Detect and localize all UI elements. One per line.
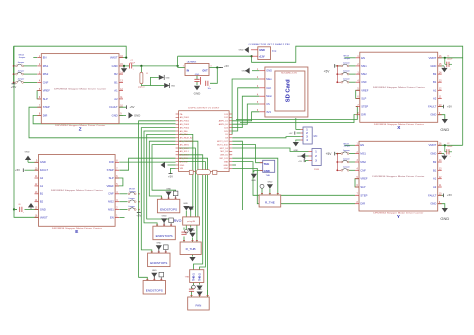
endstop 4 pin numbers xyxy=(146,278,148,280)
svg-text:DRV8834 Stepper Motor Driver C: DRV8834 Stepper Motor Driver Carrier xyxy=(373,86,425,89)
svg-text:DSPIC DEVKIT V1 DGKT: DSPIC DEVKIT V1 DGKT xyxy=(188,107,220,109)
svg-text:CNF: CNF xyxy=(108,192,114,196)
Y jumper wires xyxy=(349,153,355,155)
wire: Y EN stub wire xyxy=(345,144,355,146)
svg-text:AN_PGD2: AN_PGD2 xyxy=(180,120,190,123)
wire: R_THE sense from MCU xyxy=(232,158,278,195)
PGM connector box xyxy=(312,149,321,166)
svg-text:+5V: +5V xyxy=(324,69,331,73)
FAN connector box xyxy=(188,297,210,310)
wire: I2C pin4 gnd stub xyxy=(296,140,301,142)
wire: THE connector top pin from MCU xyxy=(232,145,263,163)
wire: X VREF-SLP loop xyxy=(356,90,360,98)
svg-text:A2: A2 xyxy=(433,96,437,100)
svg-text:AN_SCL0: AN_SCL0 xyxy=(180,154,190,157)
svg-text:DIR: DIR xyxy=(109,160,114,164)
svg-text:LIN8_D0: LIN8_D0 xyxy=(220,155,229,157)
endstop gnd and switch stubs xyxy=(168,195,170,200)
svg-text:GND: GND xyxy=(297,156,302,158)
svg-text:MS2: MS2 xyxy=(361,72,367,76)
svg-text:A2: A2 xyxy=(114,97,118,101)
svg-text:+5V: +5V xyxy=(11,85,16,89)
E left pins xyxy=(35,161,39,163)
svg-text:GND: GND xyxy=(242,70,247,72)
svg-text:MOT1_SCK: MOT1_SCK xyxy=(217,144,228,146)
MCU bottom pads xyxy=(189,170,193,174)
wire: Y +5V to jumpers xyxy=(336,153,342,155)
Z jumper pad connections xyxy=(24,65,38,67)
svg-text:polyfuse: polyfuse xyxy=(138,87,145,89)
svg-text:GND: GND xyxy=(40,208,46,212)
svg-text:MIC_D6: MIC_D6 xyxy=(221,151,229,153)
wire: +12V top-left rail from Z VMOT loop xyxy=(14,46,126,209)
svg-text:C2: C2 xyxy=(447,143,449,145)
PGM gnd arrow pin2 xyxy=(301,153,305,159)
wire: FAN left pin cap link xyxy=(191,292,193,298)
wire: polyfuse J1 branch down xyxy=(140,66,142,73)
wire: PGM pin1 from MCU xyxy=(232,148,308,152)
wire: MCU internal bus to servo 2 xyxy=(179,148,196,217)
endstop 3 gnd arrow xyxy=(156,245,162,249)
svg-text:Jumper: Jumper xyxy=(128,206,135,208)
I2C connector pins xyxy=(301,129,303,131)
wire: Z VREF-SLP loop xyxy=(37,91,41,99)
Z left pins xyxy=(37,57,41,59)
wire: X STEP from MCU xyxy=(236,106,357,119)
svg-text:100uF: 100uF xyxy=(447,146,453,148)
svg-text:IN: IN xyxy=(187,69,190,72)
svg-text:A1: A1 xyxy=(40,184,44,188)
svg-text:DRV8834 Stepper Motor Driver C: DRV8834 Stepper Motor Driver Carrier xyxy=(372,175,424,178)
svg-text:GND: GND xyxy=(430,64,436,68)
wire: MCU gnd pin row15 xyxy=(168,164,176,166)
svg-text:GND: GND xyxy=(264,169,270,173)
endstop 2 gnd arrow xyxy=(161,218,167,222)
wire: FAN right pin from +5V bus xyxy=(207,290,209,297)
svg-text:STEP: STEP xyxy=(43,105,50,109)
wire: MCU left endstop bus 2 xyxy=(141,128,175,254)
svg-text:B1: B1 xyxy=(433,168,437,172)
wire: X GND15 stub to gnd xyxy=(438,65,444,67)
svg-text:GND: GND xyxy=(430,113,436,117)
R_THE pin numbers xyxy=(261,193,263,195)
svg-text:GND: GND xyxy=(293,150,298,152)
svg-text:(kng): (kng) xyxy=(272,50,277,52)
wire: MCU left endstop bus 4 xyxy=(149,141,175,199)
wire: Y VREF-SLP loop xyxy=(355,179,359,187)
X +5V supply at jumpers xyxy=(334,64,336,68)
svg-text:CNF: CNF xyxy=(361,80,367,84)
PGM connector pins xyxy=(309,151,313,153)
endstop 1 gnd arrow xyxy=(166,192,172,196)
svg-text:EN: EN xyxy=(110,215,114,219)
svg-text:VREF: VREF xyxy=(107,184,115,188)
gnd arrow at E bulk cap xyxy=(28,203,34,207)
svg-text:Jumper: Jumper xyxy=(344,146,351,148)
svg-text:SLP: SLP xyxy=(361,96,366,100)
svg-text:DRV8834 Stepper Motor Driver C: DRV8834 Stepper Motor Driver Carrier xyxy=(54,87,106,90)
svg-text:+5V: +5V xyxy=(447,193,452,197)
wire: MCU right stub row15 and k8 drop xyxy=(232,164,236,166)
svg-text:GND: GND xyxy=(251,180,256,182)
junction at regulator tap xyxy=(177,65,179,67)
svg-text:pw brg AM: pw brg AM xyxy=(187,220,196,223)
svg-text:THE: THE xyxy=(264,162,270,166)
JST power connector box xyxy=(258,47,271,60)
Y left pins xyxy=(355,144,359,146)
wire: SD card 3V3 xyxy=(232,112,259,121)
wire: I2C pin1 from riser xyxy=(295,118,297,130)
svg-text:B2: B2 xyxy=(433,72,437,76)
wire: regulator GND pin down xyxy=(196,76,198,80)
wire: Z GND pin to bulk cap C7 xyxy=(119,65,129,67)
svg-text:VIN: VIN xyxy=(180,168,184,170)
svg-text:+5V: +5V xyxy=(224,64,229,68)
MCU +5V supply below left pins xyxy=(169,173,173,175)
wire: MCU left endstop bus 5 xyxy=(152,145,176,193)
svg-text:A1: A1 xyxy=(433,88,437,92)
cap C7 at Z GND pin xyxy=(129,63,131,68)
wire: +5V branch down to cap C5 xyxy=(210,68,217,84)
endstop connector 3 box xyxy=(148,253,170,267)
svg-text:Mosi: Mosi xyxy=(266,94,272,98)
SERVO header box xyxy=(183,217,200,225)
svg-text:MOT2_OUT: MOT2_OUT xyxy=(217,141,229,143)
endstop 2 pin numbers xyxy=(156,224,158,226)
svg-text:SLP: SLP xyxy=(109,176,114,180)
svg-text:MS2: MS2 xyxy=(360,160,366,164)
svg-text:3V3: 3V3 xyxy=(266,110,271,114)
svg-text:GND: GND xyxy=(440,216,449,221)
svg-text:SLP: SLP xyxy=(360,185,365,189)
E +5V supply at jumpers xyxy=(137,212,141,214)
svg-text:CONNECTOR JST 2 SHIM 2 PIN: CONNECTOR JST 2 SHIM 2 PIN xyxy=(249,44,291,46)
wire: THB bottom pins xyxy=(193,283,195,286)
svg-text:MS1: MS1 xyxy=(43,64,49,68)
svg-text:STEP: STEP xyxy=(360,193,367,197)
svg-text:CNF: CNF xyxy=(43,80,49,84)
wire: Z jumper +5V rail xyxy=(13,46,15,84)
junction at JST +12V pin xyxy=(251,55,253,57)
MCU gnd arrow row15 xyxy=(161,162,165,168)
Z FAULT wire and +5V supply xyxy=(119,106,126,108)
svg-text:Jumper: Jumper xyxy=(343,150,350,152)
svg-text:SLP: SLP xyxy=(43,97,48,101)
wire: bus down to THB connector 2 xyxy=(179,162,206,270)
svg-text:SD Card: SD Card xyxy=(286,79,292,102)
gnd arrow above R_THB middle pin xyxy=(189,233,195,237)
servo gnd arrows above xyxy=(183,206,189,210)
svg-text:AN_RA0: AN_RA0 xyxy=(180,133,189,136)
regulator +5V supply xyxy=(219,67,223,69)
FAN pin numbers xyxy=(191,295,193,297)
wire: MCU internal bus to servo 3 xyxy=(179,141,198,217)
svg-text:Jumper: Jumper xyxy=(129,191,136,193)
wire: JST +12V to right rail riser xyxy=(252,46,463,145)
svg-text:DIR: DIR xyxy=(360,202,365,206)
E jumpers xyxy=(128,193,130,195)
stepper driver Y (DRV8834 carrier) box xyxy=(359,141,438,211)
R_THE thermistor box xyxy=(259,195,281,207)
cap C1 at X VMOT xyxy=(446,62,448,67)
wire: X EN stub wire xyxy=(345,57,356,59)
svg-text:GND: GND xyxy=(162,216,167,218)
wire: Y FAULT to +5V xyxy=(438,194,444,196)
THE connector box xyxy=(263,160,275,172)
svg-text:uA78M05: uA78M05 xyxy=(187,61,197,64)
wire: E DIR to MCU xyxy=(119,161,175,163)
svg-text:MS1: MS1 xyxy=(108,208,114,212)
svg-text:Jumper: Jumper xyxy=(344,58,351,60)
wire: +12V feed to E driver cap and VMOT xyxy=(14,208,17,210)
cap C2 at Y VMOT xyxy=(446,149,448,154)
svg-text:+5V: +5V xyxy=(289,133,293,135)
svg-text:Jumper: Jumper xyxy=(18,79,25,81)
svg-text:GND: GND xyxy=(259,49,265,52)
svg-text:DIR: DIR xyxy=(361,113,366,117)
MCU left pins xyxy=(176,113,179,115)
svg-text:Jumper: Jumper xyxy=(18,70,25,72)
wire: E SLP-VREF loop xyxy=(115,178,123,186)
svg-text:C1: C1 xyxy=(447,55,449,57)
E FAULT +5V xyxy=(22,168,24,172)
endstop connector 2 box xyxy=(153,226,175,240)
svg-text:FAULT: FAULT xyxy=(40,168,49,172)
svg-text:GND: GND xyxy=(194,92,202,96)
MCU dev board U1 box xyxy=(179,111,230,172)
svg-text:SDCARD-3.3V: SDCARD-3.3V xyxy=(281,72,298,75)
junction +12V at E cap xyxy=(13,208,15,210)
diode D1 to gnd xyxy=(159,75,164,80)
svg-text:AN_RA1E_B2: AN_RA1E_B2 xyxy=(180,137,194,140)
svg-text:ENDSTOPS: ENDSTOPS xyxy=(160,207,177,211)
svg-text:PGM: PGM xyxy=(314,169,319,171)
svg-text:GND: GND xyxy=(112,113,118,117)
svg-text:R_THB: R_THB xyxy=(186,247,196,251)
svg-text:OUT: OUT xyxy=(202,69,208,72)
svg-text:MS2: MS2 xyxy=(108,200,114,204)
E right pins xyxy=(115,161,119,163)
I2C +5V supply xyxy=(294,131,296,134)
svg-text:A1: A1 xyxy=(433,177,437,181)
svg-text:MS2: MS2 xyxy=(43,72,49,76)
svg-text:CNF: CNF xyxy=(360,168,366,172)
wire: Z STEP to MCU xyxy=(29,107,176,138)
svg-text:CLK: CLK xyxy=(266,86,271,90)
svg-text:AN_PGD1: AN_PGD1 xyxy=(180,116,190,119)
Y jumpers xyxy=(341,153,343,155)
svg-text:ENDSTOPS: ENDSTOPS xyxy=(150,261,167,265)
svg-text:+5V: +5V xyxy=(326,152,333,156)
X jumper wires xyxy=(349,65,356,67)
gnd symbol Y GND9 xyxy=(442,208,448,212)
wire: PGM pin2 +5V stub xyxy=(305,155,309,157)
svg-text:STEP: STEP xyxy=(107,168,114,172)
svg-text:AN_RA5: AN_RA5 xyxy=(180,130,189,133)
wire: R_THB middle pin gnd link xyxy=(192,238,194,243)
svg-text:GND: GND xyxy=(112,64,118,68)
gnd symbol under regulator xyxy=(194,86,200,90)
svg-text:Jumper: Jumper xyxy=(343,79,350,81)
svg-text:STEP: STEP xyxy=(361,105,368,109)
E GND9 gnd symbol xyxy=(25,156,31,160)
svg-text:Jumper: Jumper xyxy=(343,71,350,73)
Y right pins xyxy=(438,144,442,146)
wire: E EN stub wire xyxy=(119,216,124,218)
wire: SD card CLK xyxy=(232,88,259,131)
svg-text:GND: GND xyxy=(180,165,185,167)
wire: MCU internal bus to servo 1 xyxy=(179,134,193,210)
I2C gnd arrow xyxy=(293,142,299,146)
svg-text:Miso: Miso xyxy=(266,77,272,81)
polyfuse J1 xyxy=(140,72,143,83)
gnd arrow X GND15 xyxy=(441,68,447,72)
svg-text:Jumper: Jumper xyxy=(18,62,25,64)
svg-text:B1: B1 xyxy=(433,80,437,84)
svg-text:B2: B2 xyxy=(433,160,437,164)
svg-text:GND: GND xyxy=(152,270,157,272)
svg-text:Z: Z xyxy=(79,126,82,131)
wire: Y GND15 stub to gnd xyxy=(438,153,444,155)
cap above R_THB left pin xyxy=(181,231,186,233)
wire: SD card Miso xyxy=(232,79,259,134)
svg-text:A2: A2 xyxy=(40,176,44,180)
gnd arrow THE bottom pin xyxy=(251,174,257,178)
svg-text:A1: A1 xyxy=(114,89,118,93)
wire: MCU left endstop bus 3 xyxy=(144,131,176,226)
X jumpers xyxy=(341,65,343,67)
wire: X VMOT to +12V rail xyxy=(438,57,463,59)
wire: MCU +5V pin row16 xyxy=(171,168,176,173)
wire: Y VMOT to +12V rail xyxy=(438,144,463,146)
svg-text:VBB: VBB xyxy=(224,161,229,163)
svg-text:EN: EN xyxy=(360,143,364,147)
wire: Y GND9 to gnd symbol xyxy=(438,204,445,208)
svg-text:DIR: DIR xyxy=(43,113,48,117)
svg-text:Jumper: Jumper xyxy=(343,158,350,160)
wire: X FAULT to +5V xyxy=(438,106,444,108)
svg-text:GND: GND xyxy=(25,152,30,154)
svg-text:AN_PGD4: AN_PGD4 xyxy=(180,126,190,129)
endstop connector 1 box xyxy=(157,199,179,213)
R_THB pin numbers xyxy=(183,240,185,242)
wire: +5V rail down to FAN xyxy=(179,158,208,297)
svg-text:ENDSTOPS: ENDSTOPS xyxy=(156,234,173,238)
svg-text:GND: GND xyxy=(440,127,449,132)
junction +12V at polyfuse tap xyxy=(140,65,142,67)
R_THB thermistor box xyxy=(180,242,201,255)
SD card inner outline xyxy=(275,71,305,111)
svg-text:Y: Y xyxy=(397,214,400,219)
endstop 2 switch box xyxy=(169,218,174,223)
wire: PGM pin3 gnd stub xyxy=(306,161,309,163)
wire: Z DIR to MCU xyxy=(33,115,176,123)
svg-text:+5V: +5V xyxy=(447,105,452,109)
svg-text:GND: GND xyxy=(156,243,161,245)
svg-text:A2: A2 xyxy=(433,185,437,189)
svg-text:MIC_D11: MIC_D11 xyxy=(220,158,229,160)
wire: Y DIR from MCU xyxy=(232,168,355,203)
endstop 4 switch box xyxy=(159,272,164,277)
wire: servo bottom pins xyxy=(185,225,187,229)
Y FAULT +5V label xyxy=(443,194,445,198)
wire: X +5V to jumpers xyxy=(336,65,342,67)
endstop 3 switch box xyxy=(164,245,169,250)
Z right pins xyxy=(119,57,123,59)
THB connector box xyxy=(190,270,204,283)
PGM +5V supply pin3 xyxy=(303,159,305,162)
svg-text:B1: B1 xyxy=(40,192,44,196)
diode D2 to gnd xyxy=(164,83,169,88)
svg-text:AN_SCL1: AN_SCL1 xyxy=(180,150,190,153)
svg-text:+5V: +5V xyxy=(298,161,302,163)
svg-text:THB-1: THB-1 xyxy=(192,273,196,281)
wire: X DIR from MCU xyxy=(240,115,356,123)
svg-text:GND: GND xyxy=(166,189,171,191)
svg-text:AMP1_D1: AMP1_D1 xyxy=(219,120,229,123)
cap above FAN left pin xyxy=(189,288,194,290)
X left pins xyxy=(356,57,360,59)
svg-text:GND: GND xyxy=(40,160,46,164)
svg-text:GND: GND xyxy=(197,289,202,291)
svg-text:VREF: VREF xyxy=(360,177,368,181)
endstop connector 4 box xyxy=(143,281,165,295)
stepper driver Z (DRV8834 carrier) box xyxy=(41,54,119,124)
gnd arrow below R_THB xyxy=(189,257,195,261)
svg-text:AN_SCL2: AN_SCL2 xyxy=(180,147,190,150)
X right pins xyxy=(438,57,442,59)
svg-text:VMOT: VMOT xyxy=(429,143,437,147)
svg-text:R_THE: R_THE xyxy=(265,200,275,204)
svg-text:GND: GND xyxy=(134,113,140,117)
Y +5V supply at jumpers xyxy=(334,152,336,156)
svg-text:AN_SER1: AN_SER1 xyxy=(180,143,190,146)
svg-text:AN_PGDPWM: AN_PGDPWM xyxy=(180,140,193,143)
svg-text:AN_RX2: AN_RX2 xyxy=(180,160,189,163)
svg-text:E: E xyxy=(75,229,78,234)
wire: regulator OUT to +5V net xyxy=(209,67,221,69)
svg-text:I2C: I2C xyxy=(314,135,318,138)
svg-text:+5V: +5V xyxy=(129,105,134,109)
svg-text:Jumper: Jumper xyxy=(19,57,26,59)
svg-text:MOT_D4: MOT_D4 xyxy=(220,148,229,150)
stepper driver X (DRV8834 carrier) box xyxy=(360,52,438,122)
cap C3 under regulator xyxy=(194,78,199,80)
svg-text:B1: B1 xyxy=(114,80,118,84)
svg-text:GND: GND xyxy=(430,202,436,206)
svg-text:GND: GND xyxy=(183,203,188,205)
svg-text:+5V: +5V xyxy=(15,168,20,172)
endstop 1 pin numbers xyxy=(161,197,163,199)
svg-text:GND: GND xyxy=(267,182,272,184)
gnd arrow at SD GND pin xyxy=(245,68,249,74)
svg-text:Jumper: Jumper xyxy=(128,198,135,200)
svg-text:THE: THE xyxy=(266,175,271,177)
svg-text:MS1: MS1 xyxy=(361,64,367,68)
SD card holder outer box xyxy=(265,67,308,117)
svg-text:AN_RX1: AN_RX1 xyxy=(180,157,189,160)
wire: JST +12V line to regulator tap xyxy=(178,55,252,57)
wire: E FAULT to +5V xyxy=(25,169,39,171)
wire: I2C pin2 +5V stub xyxy=(297,132,301,134)
wire: Y STEP from MCU xyxy=(232,162,355,196)
gnd arrow at Z bulk cap xyxy=(121,68,127,72)
svg-text:VREF: VREF xyxy=(43,89,51,93)
wire: polyfuse output to diodes xyxy=(141,77,158,85)
Z GND9 gnd arrow xyxy=(119,114,126,116)
wire: R_THB left pin cap link xyxy=(183,237,185,243)
svg-text:B2: B2 xyxy=(40,200,44,204)
